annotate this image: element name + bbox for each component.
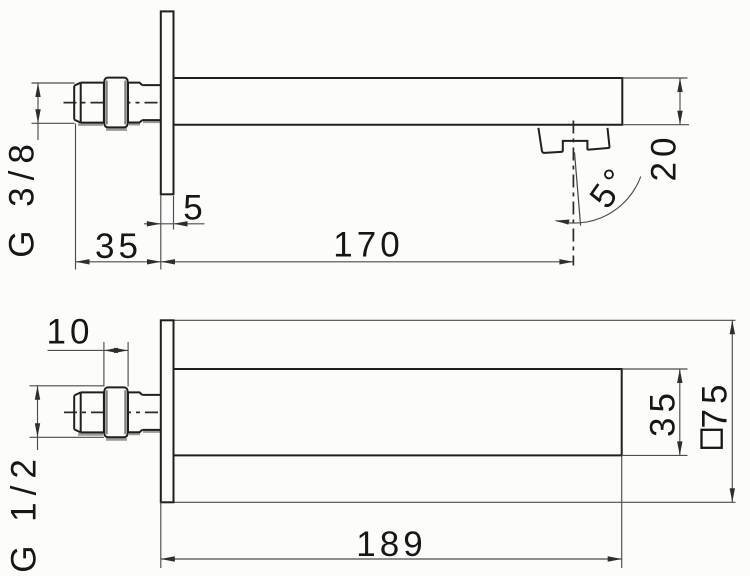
extension line from plate left edge down [160, 195, 162, 270]
shadow under nut (top view) [106, 128, 127, 131]
dimension 35: extension line at thread tip [75, 124, 77, 270]
shadow under thread (top view) [78, 123, 103, 126]
dimension 170: arrows [161, 259, 175, 264]
hex nut (side view) [104, 78, 127, 128]
dimension 20: arrows [677, 78, 682, 92]
extension line for square-75 bottom (plan) [161, 501, 736, 503]
aerator housing (side view) [538, 128, 609, 153]
dimension 5 (plate thickness): extension line [173, 196, 175, 230]
centerline (top view) [64, 102, 173, 104]
dimension 10: dimension line [48, 349, 129, 351]
arrowhead on angle arc [556, 220, 570, 225]
thread G3/8 (side view) [74, 83, 104, 123]
dimension square-75: dimension line [731, 320, 733, 502]
dimension square-75: arrows [730, 320, 735, 334]
shadow under nut (bottom view) [106, 438, 127, 441]
dimension 35 (plan): arrows [677, 369, 682, 383]
shadow under connector pieces (bottom view) [129, 432, 160, 434]
dimension 10: arrows (inside, pointing outward) [104, 348, 118, 353]
svg-text:75: 75 [696, 380, 735, 429]
hex nut (plan view) [104, 387, 127, 437]
dimension 5: arrows (outside, pointing inward) [147, 221, 161, 226]
angle arc for 5 degrees [556, 176, 641, 223]
svg-text:10: 10 [47, 313, 94, 352]
svg-text:189: 189 [356, 525, 426, 564]
thread G1/2 (plan view) [74, 392, 104, 432]
dimension 35: dimension line [76, 261, 162, 263]
connector piece A (side view) [128, 83, 142, 123]
svg-text:5: 5 [183, 189, 206, 228]
dimension G 1/2: arrows [35, 386, 40, 400]
connector piece A (plan view) [128, 392, 142, 432]
dimension G 1/2: dimension line [37, 386, 39, 450]
dimension 35: arrows [76, 259, 90, 264]
svg-text:170: 170 [333, 226, 403, 265]
dimension 10: extension lines [104, 342, 128, 387]
wall plate (plan view) [161, 320, 174, 502]
shadow under connector pieces (top view) [129, 122, 160, 124]
svg-text:20: 20 [645, 133, 684, 182]
dimension 170: dimension line [161, 261, 573, 263]
dimension G 3/8: arrows [35, 83, 40, 97]
dimension 20: extension lines [622, 78, 689, 125]
svg-text:35: 35 [95, 227, 142, 266]
shadow under thread (bottom view) [78, 433, 103, 436]
dimension 189: extension lines [161, 455, 622, 568]
dimension 20: dimension line [679, 78, 681, 125]
dimension 189: dimension line [161, 558, 622, 560]
dimension G 1/2: extension lines [30, 386, 105, 438]
connector piece B (plan view) [142, 395, 161, 430]
spout body (side view) [174, 78, 623, 125]
extension line for square-75 top (plan) [161, 319, 736, 321]
dimension 189: arrows [161, 556, 175, 561]
wall plate (side view) [161, 11, 174, 194]
dimension G 3/8: dimension line [37, 83, 39, 140]
dimension 5: dimension line [144, 223, 205, 225]
dimension 35 (plan): extension lines [622, 369, 688, 455]
centerline (bottom view) [64, 411, 173, 413]
label square symbol [702, 430, 722, 448]
connector piece B (side view) [142, 85, 161, 120]
aerator centerline [572, 121, 574, 266]
dimension 35 (plan): dimension line [679, 369, 681, 455]
dimension G 3/8: extension lines [32, 83, 75, 123]
svg-text:G 3/8: G 3/8 [3, 137, 42, 258]
svg-text:G 1/2: G 1/2 [5, 452, 44, 573]
5-degree reference line [575, 152, 581, 225]
spout body (plan view) [174, 369, 622, 455]
svg-text:35: 35 [644, 388, 683, 437]
